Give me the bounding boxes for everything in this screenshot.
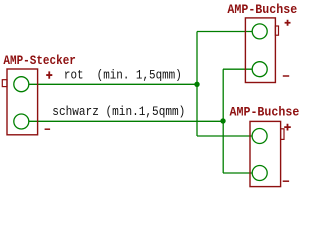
- connector X1 tab: [2, 80, 7, 87]
- X1 plus sign: [46, 71, 52, 78]
- X2 pin 2 circle: [252, 62, 267, 77]
- connector X2 tab: [275, 26, 278, 35]
- X2 pin 1 circle: [252, 24, 267, 39]
- svg-text:rot (min. 1,5qmm): rot (min. 1,5qmm): [64, 68, 182, 82]
- X3 pin 2 circle: [252, 166, 267, 181]
- svg-text:AMP-Stecker: AMP-Stecker: [3, 53, 76, 68]
- connector X2 body: [245, 18, 275, 83]
- X3 plus sign: [284, 124, 291, 131]
- wire net + to X2 pin 1: [197, 31, 252, 33]
- wire net - vertical: [222, 69, 224, 173]
- X1 pin 2 circle: [14, 114, 29, 129]
- wire net - to X2 pin 2: [223, 68, 252, 70]
- X1 pin 1 circle: [14, 77, 29, 92]
- junction net +: [194, 82, 199, 87]
- wire net - to X3 pin 2: [223, 172, 252, 174]
- svg-text:AMP-Buchse: AMP-Buchse: [227, 2, 297, 17]
- wire net + vertical: [196, 32, 198, 137]
- svg-text:schwarz (min.1,5qmm): schwarz (min.1,5qmm): [52, 105, 185, 119]
- wire rot (net +) horizontal: [29, 83, 197, 85]
- X3 pin 1 circle: [252, 129, 267, 144]
- svg-text:AMP-Buchse: AMP-Buchse: [230, 105, 300, 120]
- X2 plus sign: [285, 20, 291, 26]
- connector X3 tab: [281, 129, 284, 140]
- junction net -: [220, 118, 225, 123]
- X3 minus sign: [283, 180, 289, 182]
- connector X1 body: [7, 69, 38, 135]
- X1 minus sign: [45, 128, 51, 130]
- connector X3 body: [250, 121, 281, 186]
- wire net + to X3 pin 1: [197, 135, 252, 137]
- X2 minus sign: [283, 75, 289, 77]
- wire schwarz (net -) horizontal: [29, 120, 223, 122]
